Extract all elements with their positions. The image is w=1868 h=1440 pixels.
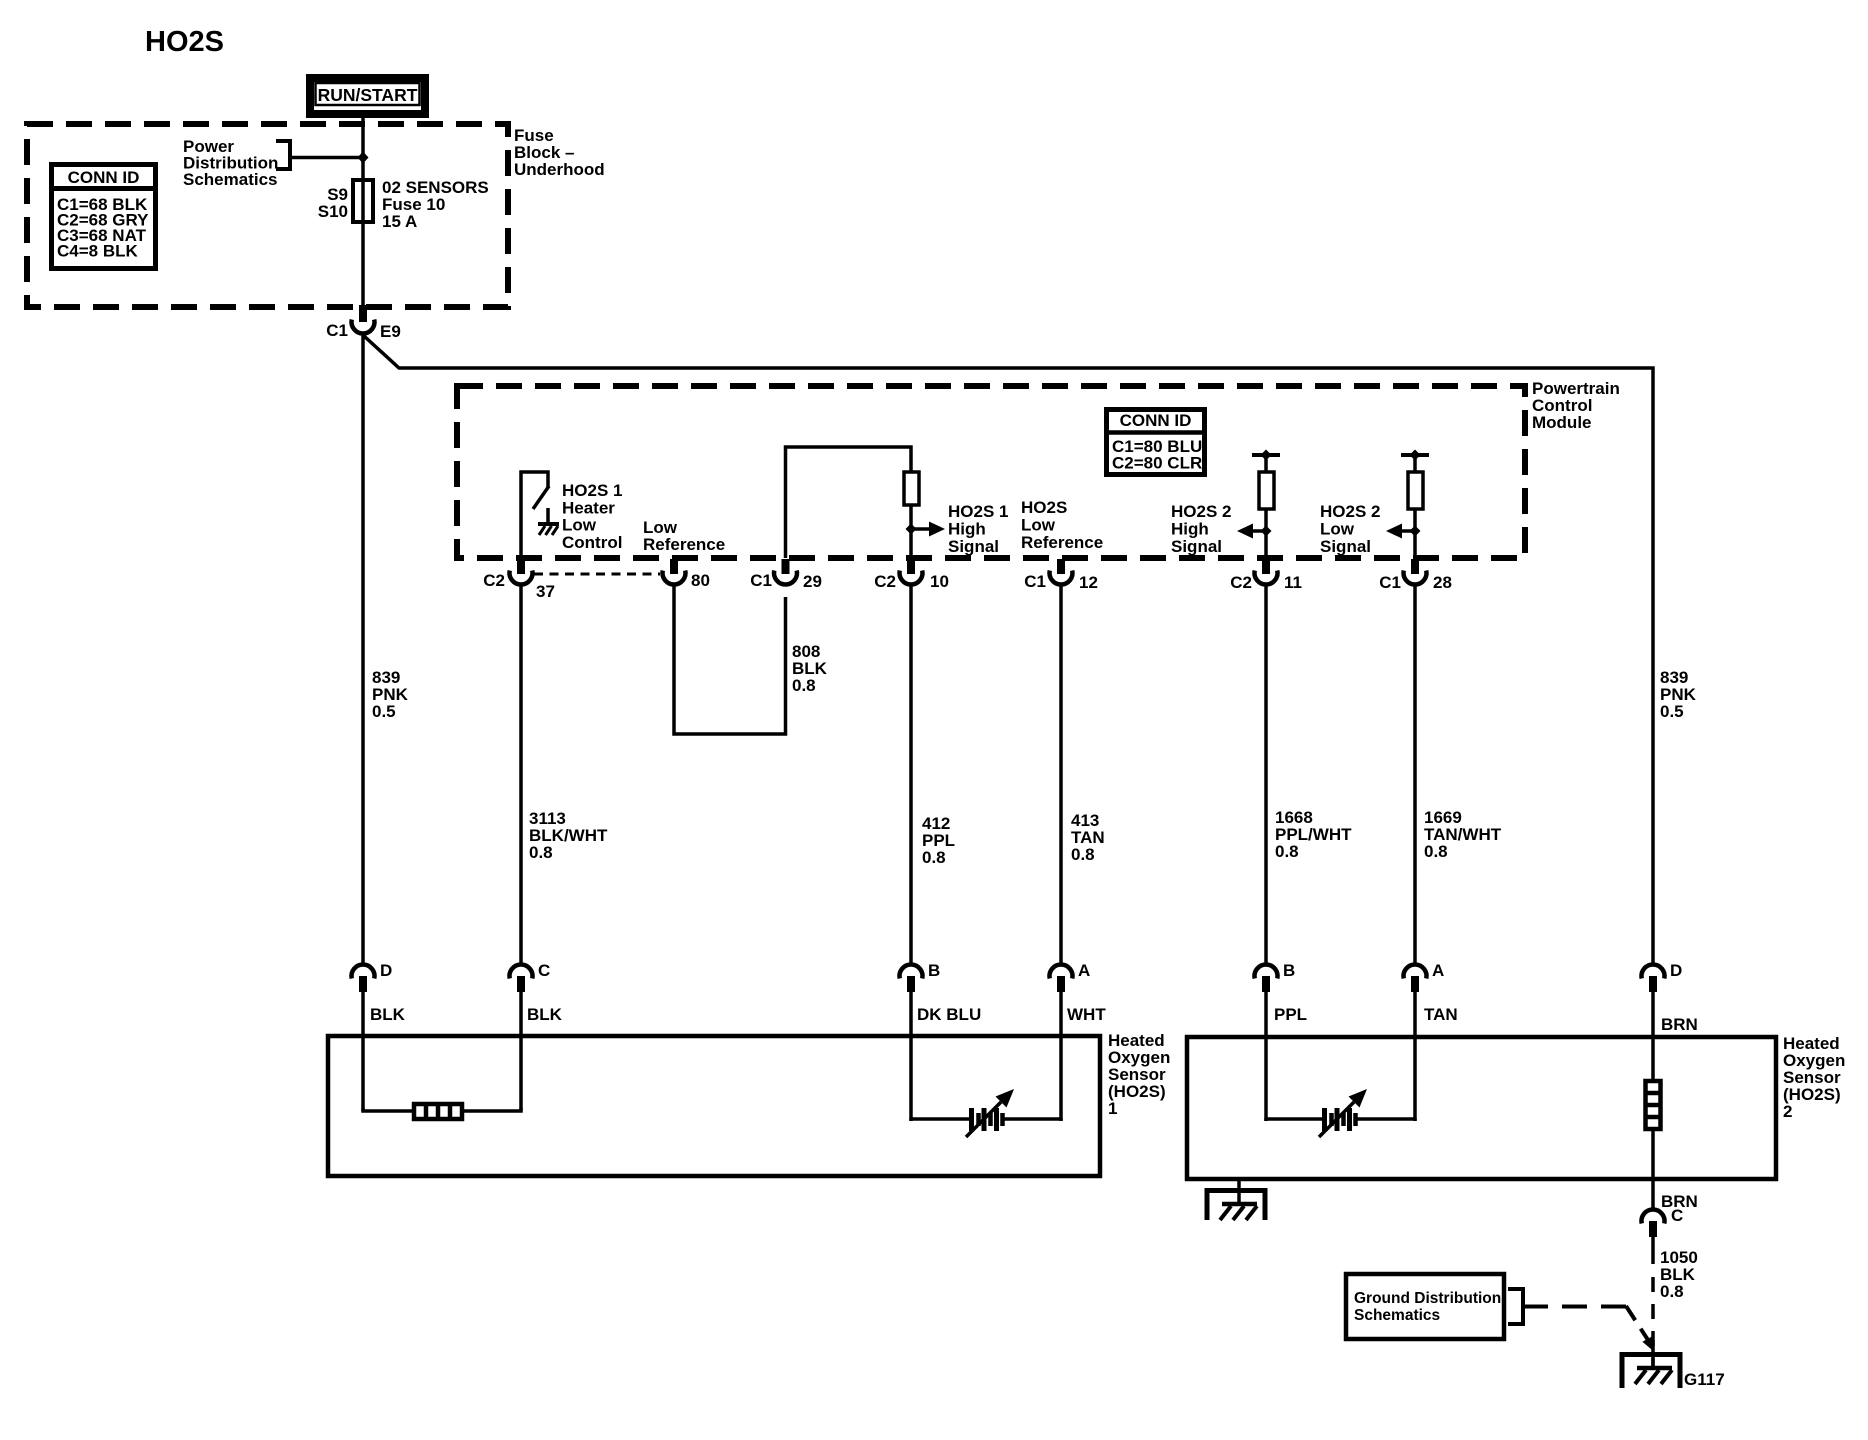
fuse block underhood dashed box — [27, 124, 508, 307]
resistor HO2S1 high signal pull — [904, 472, 919, 505]
wire 413 TAN drop (12 to A) — [1059, 584, 1063, 964]
svg-text:0.8: 0.8 — [1424, 842, 1448, 861]
wire E9 branch to right rail — [364, 336, 1653, 964]
chassis ground (heater low control) — [538, 524, 559, 535]
connector pin 80 — [663, 559, 710, 590]
svg-text:A: A — [1078, 961, 1090, 980]
label S9 S10 — [318, 185, 348, 221]
svg-text:80: 80 — [691, 571, 710, 590]
heated oxygen sensor 1 box — [328, 1036, 1100, 1176]
svg-text:C: C — [1671, 1206, 1683, 1225]
label G117 — [1684, 1370, 1725, 1389]
svg-text:Schematics: Schematics — [183, 170, 278, 189]
connector C1 pin 12 — [1024, 559, 1098, 592]
connector B (HO2S1 signal high) — [900, 961, 941, 992]
label Powertrain Control Module — [1532, 379, 1620, 432]
svg-text:Signal: Signal — [1171, 537, 1222, 556]
label 3113 BLK/WHT 0.8 — [529, 809, 608, 862]
connector C (HO2S1 heater return) — [509, 961, 550, 992]
wire PCM internal loop 29 to resistor — [786, 447, 912, 558]
svg-text:CONN ID: CONN ID — [1120, 411, 1192, 430]
svg-text:Schematics: Schematics — [1354, 1307, 1440, 1324]
connector C2 pin 11 — [1230, 559, 1302, 592]
bracket ground distribution reference — [1508, 1289, 1523, 1324]
label 1050 BLK 0.8 — [1660, 1248, 1698, 1301]
wire B into sensor 1 — [909, 991, 913, 1121]
title HO2S — [145, 26, 224, 58]
wire power distribution tap — [290, 156, 363, 160]
label TAN — [1424, 1005, 1458, 1024]
connector C1 pin 29 — [750, 559, 822, 591]
sensor cell HO2S2 (variable battery) — [1325, 1108, 1356, 1131]
svg-text:C2=80 CLR: C2=80 CLR — [1112, 454, 1202, 473]
wire resistor to connector 10 — [909, 505, 913, 559]
svg-text:E9: E9 — [380, 322, 401, 341]
svg-text:Low: Low — [562, 516, 597, 535]
svg-text:BLK: BLK — [370, 1005, 406, 1024]
svg-text:D: D — [380, 961, 392, 980]
svg-text:C2: C2 — [874, 572, 896, 591]
svg-text:TAN: TAN — [1424, 1005, 1458, 1024]
svg-text:0.8: 0.8 — [1071, 845, 1095, 864]
svg-text:C1: C1 — [1379, 573, 1401, 592]
label HO2S 2 High Signal — [1171, 502, 1231, 556]
svg-text:HO2S 1: HO2S 1 — [948, 502, 1008, 521]
wire ground stub sensor 2 — [1237, 1179, 1241, 1205]
svg-text:DK BLU: DK BLU — [917, 1005, 981, 1024]
svg-text:C1: C1 — [1024, 572, 1046, 591]
wire A into sensor 1 — [1059, 991, 1063, 1121]
dashed link connector 37 to 80 — [534, 573, 660, 576]
svg-text:C: C — [538, 961, 550, 980]
ground G117 — [1622, 1340, 1680, 1388]
svg-text:29: 29 — [803, 572, 822, 591]
svg-text:Low: Low — [1320, 520, 1355, 539]
wire RUN/START to fuse — [361, 116, 365, 180]
svg-text:PPL: PPL — [1274, 1005, 1307, 1024]
label 02 SENSORS Fuse 10 15 A — [382, 178, 489, 231]
svg-text:HO2S 2: HO2S 2 — [1171, 502, 1231, 521]
label 413 TAN 0.8 — [1071, 811, 1105, 864]
wire D into sensor 2 — [1651, 991, 1655, 1082]
connector C2 pin 10 — [874, 559, 949, 591]
connector C1 pin 28 — [1379, 559, 1452, 592]
svg-text:High: High — [1171, 520, 1209, 539]
svg-text:0.8: 0.8 — [792, 676, 816, 695]
svg-text:37: 37 — [536, 582, 555, 601]
svg-text:28: 28 — [1433, 573, 1452, 592]
svg-text:0.5: 0.5 — [372, 702, 396, 721]
svg-text:2: 2 — [1783, 1102, 1792, 1121]
CONN ID table (fuse block) — [51, 165, 156, 269]
label BRN (lower) — [1661, 1192, 1698, 1211]
label WHT — [1067, 1005, 1106, 1024]
svg-text:C4=8 BLK: C4=8 BLK — [57, 242, 138, 261]
svg-text:D: D — [1670, 961, 1682, 980]
svg-text:HO2S: HO2S — [145, 26, 224, 58]
wire resistor to connector 28 — [1413, 509, 1417, 559]
HO2S2 high signal pull-up T bar — [1252, 450, 1280, 474]
label HO2S Low Reference — [1021, 498, 1103, 552]
arrow variable sensor HO2S1 — [966, 1089, 1014, 1137]
junction HO2S2 high signal — [1261, 526, 1272, 537]
svg-text:BLK: BLK — [527, 1005, 563, 1024]
wire sensor cell leg B side — [911, 1118, 969, 1119]
label 412 PPL 0.8 — [922, 814, 955, 867]
wire heater to box bottom (HO2S2) — [1651, 1129, 1655, 1209]
svg-text:Signal: Signal — [948, 537, 999, 556]
resistor HO2S2 high signal — [1259, 472, 1274, 509]
svg-text:C2: C2 — [1230, 573, 1252, 592]
connector D (HO2S2 heater feed) — [1642, 961, 1683, 992]
wire D to heater (HO2S2) — [1651, 1080, 1655, 1084]
wire C into sensor 1 — [519, 991, 523, 1111]
label HO2S 2 Low Signal — [1320, 502, 1380, 556]
powertrain control module dashed box — [457, 386, 1525, 558]
wire 839 PNK left drop (E9 to D) — [361, 334, 365, 964]
svg-text:0.5: 0.5 — [1660, 702, 1684, 721]
connector A (HO2S1 signal low) — [1050, 961, 1091, 992]
junction S9/S10 tap — [358, 152, 369, 164]
arrow variable sensor HO2S2 — [1319, 1089, 1367, 1137]
svg-text:B: B — [1283, 961, 1295, 980]
wire sensor cell leg A side — [1004, 1118, 1061, 1119]
svg-text:HO2S: HO2S — [1021, 498, 1067, 517]
connector D (HO2S1 heater feed) — [352, 961, 393, 992]
wire low reference loop 80 to 29 — [674, 584, 786, 734]
wire sensor cell leg A side (HO2S2) — [1357, 1118, 1415, 1119]
svg-text:BRN: BRN — [1661, 1015, 1698, 1034]
svg-text:Low: Low — [1021, 516, 1056, 535]
label PPL — [1274, 1005, 1307, 1024]
connector A (HO2S2 signal low) — [1404, 961, 1445, 992]
bracket to power distribution schematics — [276, 141, 290, 169]
label DK BLU — [917, 1005, 981, 1024]
sensor cell HO2S1 (variable battery) — [972, 1108, 1003, 1131]
svg-text:C1: C1 — [326, 321, 348, 340]
svg-text:10: 10 — [930, 572, 949, 591]
dashed reference wire to G117 — [1523, 1306, 1654, 1352]
label Low Reference — [643, 518, 725, 554]
svg-text:High: High — [948, 520, 986, 539]
wire resistor to connector 11 — [1264, 509, 1268, 559]
heater element HO2S2 — [1646, 1081, 1661, 1129]
svg-text:Reference: Reference — [643, 535, 725, 554]
label 1669 TAN/WHT 0.8 — [1424, 808, 1502, 861]
connector B (HO2S2 signal high) — [1255, 961, 1296, 992]
label HO2S 1 Heater Low Control — [562, 481, 622, 552]
svg-text:Reference: Reference — [1021, 533, 1103, 552]
svg-text:Control: Control — [562, 533, 622, 552]
label BRN (upper) — [1661, 1015, 1698, 1034]
wire heater leg D side — [363, 1108, 414, 1111]
svg-text:C1: C1 — [750, 571, 772, 590]
svg-text:0.8: 0.8 — [529, 843, 553, 862]
label 1668 PPL/WHT 0.8 — [1275, 808, 1352, 861]
connector C2 pin 37 — [483, 559, 555, 601]
wire 1668 PPL/WHT drop (11 to B) — [1264, 584, 1268, 964]
RUN/START power feed box — [310, 78, 425, 114]
HO2S2 low signal pull-up T bar — [1401, 450, 1429, 474]
svg-text:C2: C2 — [483, 571, 505, 590]
HO2S1 heater low control driver switch — [521, 472, 549, 558]
connector C (HO2S2 heater ground) — [1642, 1206, 1684, 1237]
fuse F10 (O2 SENSORS) — [353, 180, 373, 222]
label Fuse Block Underhood — [514, 126, 605, 179]
svg-text:0.8: 0.8 — [1660, 1282, 1684, 1301]
junction HO2S1 high signal — [906, 524, 917, 535]
wire 1669 TAN/WHT drop (28 to A) — [1413, 584, 1417, 964]
label Heated Oxygen Sensor (HO2S) 2 — [1783, 1034, 1845, 1121]
resistor HO2S2 low signal — [1408, 472, 1423, 509]
label 839 PNK 0.5 right — [1660, 668, 1697, 721]
wire 412 PPL drop (10 to B) — [909, 584, 913, 964]
wire sensor cell leg B side (HO2S2) — [1266, 1118, 1322, 1119]
wire 1050 BLK to ground (part solid part dashed) — [1651, 1236, 1655, 1368]
heated oxygen sensor 2 box — [1187, 1037, 1776, 1179]
svg-text:0.8: 0.8 — [1275, 842, 1299, 861]
svg-text:1: 1 — [1108, 1099, 1117, 1118]
wire D into sensor 1 — [361, 991, 365, 1111]
heater element HO2S1 — [414, 1104, 462, 1119]
svg-text:Ground Distribution: Ground Distribution — [1354, 1290, 1501, 1307]
svg-text:A: A — [1432, 961, 1444, 980]
wire B into sensor 2 — [1264, 991, 1268, 1121]
junction HO2S2 low signal — [1410, 526, 1421, 537]
svg-text:HO2S 2: HO2S 2 — [1320, 502, 1380, 521]
wire 3113 BLK/WHT drop (37 to C) — [519, 584, 523, 964]
svg-text:Signal: Signal — [1320, 537, 1371, 556]
svg-text:11: 11 — [1284, 573, 1302, 592]
svg-text:RUN/START: RUN/START — [318, 85, 418, 105]
wire A into sensor 2 — [1413, 991, 1417, 1121]
svg-text:15 A: 15 A — [382, 212, 417, 231]
svg-text:CONN ID: CONN ID — [68, 168, 140, 187]
arrow HO2S1 high signal — [911, 522, 945, 537]
svg-text:B: B — [928, 961, 940, 980]
arrow HO2S2 high signal — [1237, 524, 1266, 539]
label HO2S 1 High Signal — [948, 502, 1008, 556]
wire fuse to connector E9 — [361, 222, 365, 306]
label BLK (D) — [370, 1005, 406, 1024]
arrow HO2S2 low signal — [1386, 524, 1415, 539]
ground symbol sensor 2 housing — [1207, 1191, 1265, 1221]
svg-text:G117: G117 — [1684, 1370, 1725, 1389]
label 839 PNK 0.5 left — [372, 668, 409, 721]
svg-text:0.8: 0.8 — [922, 848, 946, 867]
ground distribution schematics box — [1346, 1274, 1504, 1339]
svg-text:Module: Module — [1532, 413, 1592, 432]
connector C1 E9 — [326, 305, 401, 341]
svg-text:Heater: Heater — [562, 498, 615, 517]
svg-text:12: 12 — [1079, 573, 1098, 592]
label BLK (C) — [527, 1005, 563, 1024]
label 808 BLK 0.8 — [792, 642, 828, 695]
svg-text:Underhood: Underhood — [514, 160, 605, 179]
svg-text:S10: S10 — [318, 202, 348, 221]
label Heated Oxygen Sensor (HO2S) 1 — [1108, 1031, 1170, 1118]
label Power Distribution Schematics — [183, 137, 278, 189]
wire heater leg C side — [462, 1108, 521, 1111]
CONN ID table (PCM) — [1106, 410, 1205, 475]
svg-text:WHT: WHT — [1067, 1005, 1106, 1024]
svg-text:HO2S 1: HO2S 1 — [562, 481, 622, 500]
